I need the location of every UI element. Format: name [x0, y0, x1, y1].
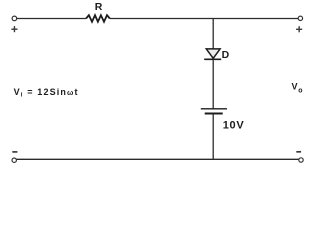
plus sign right	[296, 26, 302, 32]
wire diode anode (vertical from top wire)	[212, 19, 214, 49]
resistor R	[86, 15, 110, 22]
terminal bottom-right	[299, 158, 303, 162]
terminal top-right	[298, 16, 302, 20]
svg-text:10V: 10V	[223, 120, 245, 132]
svg-text:Vi = 12Sinωt: Vi = 12Sinωt	[14, 87, 79, 99]
wire diode cathode to battery	[212, 59, 214, 109]
wire top-left segment	[17, 18, 87, 20]
bottom wire	[16, 158, 299, 160]
minus sign left	[12, 151, 17, 153]
wire battery to bottom wire	[212, 114, 214, 160]
plus sign left	[11, 26, 17, 32]
wire top-right segment	[110, 18, 299, 20]
battery V1 (10V)	[201, 109, 227, 114]
minus sign right	[296, 151, 301, 153]
terminal bottom-left	[12, 158, 16, 162]
terminal top-left	[12, 16, 17, 21]
svg-text:Vo: Vo	[292, 82, 303, 95]
svg-text:R: R	[95, 1, 103, 13]
diode D	[204, 49, 221, 59]
svg-text:D: D	[222, 49, 230, 61]
